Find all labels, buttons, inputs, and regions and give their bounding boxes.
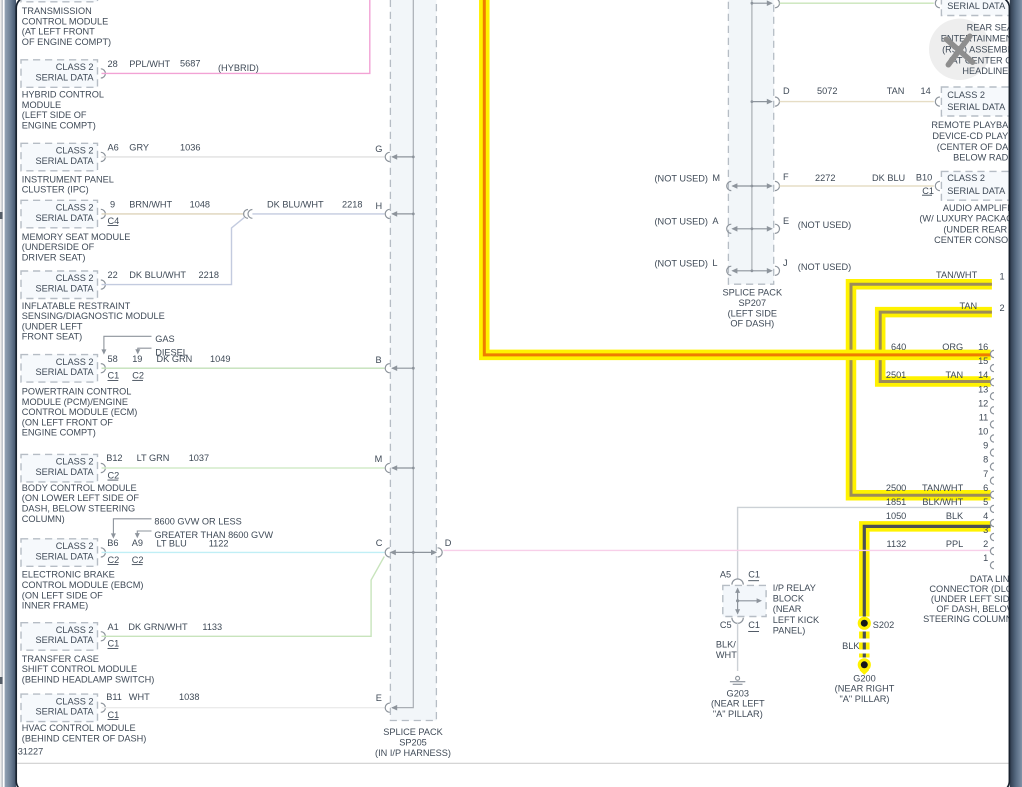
svg-text:DK BLU/WHT: DK BLU/WHT [267, 199, 324, 209]
svg-text:SERIAL DATA: SERIAL DATA [35, 551, 94, 561]
bus arc SP207 top out [775, 0, 780, 8]
callout 8600 GVW OR LESS [113, 519, 151, 534]
svg-text:CLASS 2: CLASS 2 [947, 90, 985, 100]
svg-text:(BEHIND HEADLAMP SWITCH): (BEHIND HEADLAMP SWITCH) [22, 674, 155, 684]
svg-text:(NEAR RIGHT: (NEAR RIGHT [835, 684, 895, 694]
svg-text:A9: A9 [132, 538, 143, 548]
svg-text:WHT: WHT [716, 650, 737, 660]
bus arrow M [392, 467, 413, 469]
svg-text:1133: 1133 [202, 622, 222, 632]
svg-text:TAN: TAN [887, 86, 905, 96]
bus arc B [385, 364, 390, 373]
svg-text:A5: A5 [720, 569, 731, 579]
wire PPL 1132 (SP205 D to DLC pin2) [443, 549, 990, 551]
svg-text:CLASS 2: CLASS 2 [56, 457, 94, 467]
connector box CLASS 2 SERIAL DATA (PCM) [21, 355, 98, 383]
svg-text:10: 10 [978, 427, 988, 437]
svg-text:B10: B10 [916, 172, 932, 182]
connector box CLASS 2 SERIAL DATA (BCM) [21, 454, 98, 482]
IP relay block top arc [732, 579, 743, 585]
svg-text:SERIAL DATA: SERIAL DATA [35, 367, 94, 377]
bus double arrow M-F [733, 185, 772, 187]
svg-text:22: 22 [108, 270, 118, 280]
svg-text:5: 5 [983, 497, 988, 507]
svg-text:"A" PILLAR): "A" PILLAR) [840, 694, 890, 704]
svg-text:9: 9 [110, 199, 115, 209]
svg-text:1132: 1132 [887, 539, 907, 549]
junction dot SP207 D [751, 100, 754, 103]
ground G203 symbol [736, 676, 740, 680]
svg-text:MODULE (PCM)/ENGINE: MODULE (PCM)/ENGINE [22, 397, 128, 407]
svg-text:(ON LOWER LEFT SIDE OF: (ON LOWER LEFT SIDE OF [22, 493, 140, 503]
svg-text:CLASS 2: CLASS 2 [56, 625, 94, 635]
svg-text:C1: C1 [748, 569, 760, 579]
svg-text:(W/ LUXURY PACKAGE): (W/ LUXURY PACKAGE) [919, 214, 1022, 224]
svg-text:I/P RELAY: I/P RELAY [773, 583, 816, 593]
bus arc G [385, 152, 390, 161]
connector box CLASS 2 SERIAL DATA (MSM) [21, 200, 98, 228]
svg-text:FRONT SEAT): FRONT SEAT) [22, 332, 82, 342]
svg-text:OF DASH, BELOW: OF DASH, BELOW [936, 604, 1015, 614]
wire BRN/WHT 1048 segment [102, 213, 245, 215]
bus double arrow A-E [733, 228, 772, 230]
svg-text:M: M [375, 454, 383, 464]
svg-text:28: 28 [108, 59, 118, 69]
splice pack SP205 bus line [392, 0, 413, 708]
svg-text:8600 GVW OR LESS: 8600 GVW OR LESS [154, 517, 241, 527]
bus arrow SP207 D [752, 101, 772, 103]
svg-text:SENSING/DIAGNOSTIC MODULE: SENSING/DIAGNOSTIC MODULE [22, 311, 165, 321]
svg-text:LT GRN: LT GRN [137, 453, 170, 463]
svg-text:2218: 2218 [199, 270, 219, 280]
IP relay block internal junction [736, 599, 739, 602]
svg-text:DK GRN: DK GRN [157, 354, 193, 364]
terminal arc SDM box [101, 280, 106, 289]
svg-text:4: 4 [983, 511, 988, 521]
highlight wire TAN/WHT 2500 (DLC pin1-pin6) [851, 284, 992, 495]
wire DK GRN 1049 [102, 367, 385, 369]
svg-text:2: 2 [1000, 303, 1005, 313]
splice pack SP205 bus body [390, 0, 436, 721]
bus arc L in [727, 266, 732, 275]
svg-text:31227: 31227 [18, 746, 44, 756]
wire PPL/WHT 5687 (hybrid serial data) [102, 0, 370, 73]
svg-text:L: L [712, 258, 717, 268]
svg-text:16: 16 [978, 342, 988, 352]
svg-text:C1: C1 [748, 620, 760, 630]
svg-text:ORG: ORG [942, 342, 963, 352]
DLC pin terminal arcs [990, 350, 994, 357]
junction dot M [412, 467, 415, 470]
wire DK BLU/WHT 2218 branch [102, 218, 245, 285]
svg-text:(LEFT SIDE: (LEFT SIDE [728, 308, 777, 318]
bus arc F out [775, 181, 780, 190]
connector box CLASS 2 SERIAL DATA (EBCM) [21, 539, 98, 567]
svg-text:B12: B12 [106, 453, 122, 463]
svg-text:13: 13 [978, 384, 988, 394]
svg-text:SP207: SP207 [739, 298, 767, 308]
svg-text:1049: 1049 [210, 354, 230, 364]
svg-text:ENGINE COMPT): ENGINE COMPT) [22, 428, 96, 438]
highlight wire ORG 640 (class 2 data bus to DLC pin16) [484, 0, 990, 355]
arc into CD player box [935, 97, 940, 106]
svg-text:COLUMN): COLUMN) [22, 514, 65, 524]
callout GREATER THAN 8600 GVW [137, 531, 151, 536]
svg-text:D: D [445, 538, 452, 548]
svg-text:LEFT KICK: LEFT KICK [773, 615, 820, 625]
svg-text:(NOT USED): (NOT USED) [655, 258, 708, 268]
svg-text:MEMORY SEAT MODULE: MEMORY SEAT MODULE [22, 232, 131, 242]
left scroll mark lower [0, 677, 3, 684]
svg-text:1: 1 [1000, 272, 1005, 282]
svg-text:BLK: BLK [946, 511, 964, 521]
svg-text:(NOT USED): (NOT USED) [655, 216, 708, 226]
bus arrow B [392, 367, 413, 369]
wire LT BLU 1122 [102, 551, 385, 553]
svg-text:TAN/WHT: TAN/WHT [936, 270, 978, 280]
bus arrow E [391, 705, 397, 711]
wire to RSE (green) [780, 2, 934, 4]
svg-text:J: J [783, 258, 788, 268]
svg-text:(IN I/P HARNESS): (IN I/P HARNESS) [375, 748, 451, 758]
svg-text:BRN/WHT: BRN/WHT [129, 199, 172, 209]
svg-text:2501: 2501 [886, 370, 906, 380]
bus arc H [385, 209, 390, 218]
svg-text:CLASS 2: CLASS 2 [56, 541, 94, 551]
terminal arc IPC box [101, 152, 106, 161]
junction dot H [412, 213, 415, 216]
bus arrow G [392, 156, 413, 158]
left slate edge bar [5, 0, 16, 787]
diagram bottom separator [17, 762, 1009, 764]
svg-text:OF ENGINE COMPT): OF ENGINE COMPT) [22, 37, 111, 47]
svg-text:TAN: TAN [945, 370, 963, 380]
svg-text:C2: C2 [108, 555, 120, 565]
terminal arc MSM box [101, 209, 106, 218]
svg-text:SHIFT CONTROL MODULE: SHIFT CONTROL MODULE [22, 664, 137, 674]
svg-text:2218: 2218 [342, 199, 362, 209]
svg-text:HYBRID CONTROL: HYBRID CONTROL [22, 90, 104, 100]
IP relay block bottom arc [732, 618, 743, 624]
svg-text:1851: 1851 [886, 497, 906, 507]
svg-text:1037: 1037 [189, 453, 209, 463]
svg-text:58: 58 [108, 354, 118, 364]
svg-text:PANEL): PANEL) [773, 626, 806, 636]
svg-text:LT BLU: LT BLU [157, 539, 187, 549]
bus arc E [385, 703, 390, 712]
terminal arc HVAC box [101, 703, 106, 712]
svg-text:1036: 1036 [180, 142, 200, 152]
svg-text:12: 12 [978, 398, 988, 408]
splice pack SP207 bus body [728, 0, 773, 284]
svg-text:G203: G203 [727, 688, 749, 698]
svg-text:(NEAR LEFT: (NEAR LEFT [711, 699, 765, 709]
svg-text:G: G [375, 144, 382, 154]
terminal arc HCM [101, 69, 106, 78]
connector box CLASS 2 SERIAL DATA (HVAC) [21, 694, 98, 722]
ground G200 arrow [861, 669, 869, 673]
bus arc C [385, 548, 390, 557]
svg-text:(AT CENTER OF: (AT CENTER OF [948, 55, 1018, 65]
svg-text:BLK/: BLK/ [716, 640, 736, 650]
svg-text:PPL: PPL [946, 539, 963, 549]
svg-text:CONTROL MODULE: CONTROL MODULE [22, 16, 108, 26]
connector box CLASS 2 SERIAL DATA (SDM) [21, 271, 98, 299]
svg-text:(UNDER LEFT SIDE: (UNDER LEFT SIDE [931, 594, 1016, 604]
bus arc M in (SP207) [727, 181, 732, 190]
splice pack SP207 bus line [751, 0, 753, 271]
connector box CLASS 2 SERIAL DATA (TCCM) [21, 623, 98, 651]
svg-text:TAN/WHT: TAN/WHT [922, 483, 964, 493]
svg-text:WHT: WHT [129, 692, 150, 702]
svg-text:C2: C2 [132, 371, 144, 381]
bus double arrow L-J [733, 270, 772, 272]
svg-text:C2: C2 [108, 470, 120, 480]
outer page thin divider line [1, 0, 4, 787]
ground G200 splice dot [858, 658, 871, 671]
svg-text:1: 1 [983, 553, 988, 563]
bus arc E out (SP207) [775, 224, 780, 233]
junction dot B [412, 367, 415, 370]
wire GRY 1036 [102, 156, 385, 158]
svg-text:"A" PILLAR): "A" PILLAR) [713, 709, 763, 719]
terminal arc PCM box [101, 364, 106, 373]
svg-text:SPLICE PACK: SPLICE PACK [383, 727, 443, 737]
svg-text:CONTROL MODULE (EBCM): CONTROL MODULE (EBCM) [22, 580, 144, 590]
svg-text:B11: B11 [106, 692, 122, 702]
bus arc A in [727, 224, 732, 233]
connector box CLASS 2 SERIAL DATA (CD player) [941, 87, 1017, 116]
highlight wire BLK 1050 (DLC pin4 to S202) [864, 526, 990, 616]
svg-text:OF DASH): OF DASH) [730, 319, 774, 329]
svg-text:1048: 1048 [190, 199, 210, 209]
wire BLK S202 to G200 (dashed) [859, 632, 870, 658]
svg-text:(ON LEFT SIDE OF: (ON LEFT SIDE OF [22, 590, 103, 600]
svg-text:INSTRUMENT PANEL: INSTRUMENT PANEL [22, 174, 114, 184]
svg-text:(ON LEFT FRONT OF: (ON LEFT FRONT OF [22, 417, 113, 427]
callout DIESEL [138, 348, 152, 353]
bus arrow SP207 top [752, 2, 772, 4]
svg-text:REMOTE PLAYBACK: REMOTE PLAYBACK [931, 120, 1022, 130]
svg-text:MODULE: MODULE [22, 100, 61, 110]
svg-text:SP205: SP205 [399, 738, 427, 748]
wire BLK/WHT to G203 [737, 623, 739, 671]
svg-text:C: C [376, 538, 383, 548]
svg-text:(NOT USED): (NOT USED) [655, 174, 708, 184]
svg-text:E: E [376, 693, 382, 703]
splice S202 [858, 617, 871, 630]
svg-text:SERIAL DATA: SERIAL DATA [35, 156, 94, 166]
svg-text:SERIAL DATA: SERIAL DATA [35, 467, 94, 477]
svg-text:1038: 1038 [179, 692, 199, 702]
svg-text:15: 15 [978, 356, 988, 366]
svg-text:CLASS 2: CLASS 2 [56, 146, 94, 156]
svg-text:2: 2 [983, 539, 988, 549]
svg-text:(NEAR: (NEAR [773, 604, 802, 614]
connector box CLASS 2 SERIAL DATA (HCM) [21, 60, 98, 88]
svg-text:CLASS 2: CLASS 2 [56, 357, 94, 367]
svg-text:GRY: GRY [129, 142, 149, 152]
svg-text:SERIAL DATA: SERIAL DATA [947, 102, 1006, 112]
terminal arc EBCM box [101, 548, 106, 557]
splice arcs row H [244, 210, 248, 219]
IP relay block box [723, 585, 766, 616]
svg-text:SERIAL DATA: SERIAL DATA [35, 72, 94, 82]
svg-text:S202: S202 [873, 620, 894, 630]
svg-text:INNER FRAME): INNER FRAME) [22, 601, 88, 611]
svg-text:TRANSMISSION: TRANSMISSION [22, 6, 92, 16]
svg-text:1122: 1122 [209, 539, 229, 549]
svg-text:TRANSFER CASE: TRANSFER CASE [22, 654, 99, 664]
junction dot M/F [751, 185, 754, 188]
svg-text:2500: 2500 [886, 483, 906, 493]
svg-text:SERIAL DATA: SERIAL DATA [35, 213, 94, 223]
svg-text:C1: C1 [108, 639, 120, 649]
svg-text:BLK/WHT: BLK/WHT [922, 497, 963, 507]
IP relay block internal vertical [737, 589, 739, 614]
wire BLK/WHT 1851 (DLC pin5 to relay block) [738, 507, 991, 579]
bus double arrow C-D [391, 551, 436, 553]
svg-text:H: H [376, 201, 383, 211]
svg-text:14: 14 [921, 86, 931, 96]
svg-text:ELECTRONIC BRAKE: ELECTRONIC BRAKE [22, 570, 115, 580]
bus arc M [385, 463, 390, 472]
svg-text:D: D [783, 86, 790, 96]
svg-text:C5: C5 [720, 620, 732, 630]
callout GAS [104, 336, 152, 352]
svg-text:INFLATABLE RESTRAINT: INFLATABLE RESTRAINT [22, 301, 131, 311]
svg-text:DK GRN/WHT: DK GRN/WHT [128, 622, 188, 632]
svg-text:STEERING COLUMN): STEERING COLUMN) [923, 614, 1015, 624]
arc into amplifier box [935, 181, 940, 190]
svg-text:CLASS 2: CLASS 2 [56, 273, 94, 283]
svg-text:(UNDERSIDE OF: (UNDERSIDE OF [22, 242, 95, 252]
svg-text:SPLICE PACK: SPLICE PACK [723, 288, 783, 298]
svg-text:E: E [783, 216, 789, 226]
svg-text:(NOT USED): (NOT USED) [798, 220, 851, 230]
right slate edge bar [1010, 0, 1022, 787]
junction dot G [412, 156, 415, 159]
svg-text:5072: 5072 [817, 86, 837, 96]
svg-text:BLK: BLK [842, 641, 860, 651]
close button circle [929, 19, 990, 80]
svg-text:SERIAL DATA: SERIAL DATA [35, 635, 94, 645]
svg-text:CLASS 2: CLASS 2 [56, 62, 94, 72]
svg-text:SERIAL DATA: SERIAL DATA [947, 1, 1006, 11]
svg-text:CONTROL MODULE (ECM): CONTROL MODULE (ECM) [22, 407, 138, 417]
wire DK BLU 2272 [780, 185, 934, 187]
IP relay block internal arrow right [738, 600, 759, 602]
terminal arc BCM box [101, 463, 106, 472]
svg-text:F: F [783, 172, 789, 182]
svg-text:19: 19 [132, 354, 142, 364]
svg-text:(LEFT SIDE OF: (LEFT SIDE OF [22, 110, 87, 120]
wire LT GRN 1037 [102, 467, 385, 469]
wire WHT 1038 [102, 707, 385, 709]
svg-text:ENGINE COMPT): ENGINE COMPT) [22, 120, 96, 130]
svg-text:3: 3 [983, 525, 988, 535]
svg-text:PPL/WHT: PPL/WHT [129, 59, 170, 69]
svg-text:C1: C1 [108, 710, 120, 720]
svg-text:CLUSTER (IPC): CLUSTER (IPC) [22, 185, 89, 195]
svg-text:C4: C4 [108, 216, 120, 226]
svg-text:C1: C1 [108, 371, 120, 381]
svg-text:DEVICE-CD PLAYER: DEVICE-CD PLAYER [932, 131, 1021, 141]
connector box CLASS 2 SERIAL DATA (TCM, cut off at top) [21, 0, 98, 2]
svg-text:TAN: TAN [959, 301, 977, 311]
connector box CLASS 2 SERIAL DATA (IPC) [21, 143, 98, 171]
svg-text:2272: 2272 [815, 173, 835, 183]
connector box CLASS 2 SERIAL DATA (amplifier) [941, 171, 1017, 200]
svg-text:(AT LEFT FRONT: (AT LEFT FRONT [22, 27, 95, 37]
close button X [946, 36, 972, 65]
left scroll mark upper [0, 212, 3, 219]
svg-text:CLASS 2: CLASS 2 [56, 203, 94, 213]
svg-text:B: B [376, 355, 382, 365]
svg-text:A: A [712, 216, 719, 226]
svg-text:C1: C1 [922, 186, 934, 196]
bus arc SP207 D out [775, 97, 780, 106]
svg-text:(NOT USED): (NOT USED) [798, 262, 851, 272]
svg-text:C2: C2 [132, 555, 144, 565]
svg-text:DK BLU/WHT: DK BLU/WHT [129, 270, 186, 280]
junction dot L/J [751, 269, 754, 272]
svg-text:(UNDER LEFT: (UNDER LEFT [22, 321, 83, 331]
svg-text:7: 7 [983, 469, 988, 479]
svg-text:BODY CONTROL MODULE: BODY CONTROL MODULE [22, 483, 137, 493]
terminal arc TCCM box [101, 632, 106, 641]
svg-text:HVAC CONTROL MODULE: HVAC CONTROL MODULE [22, 723, 136, 733]
svg-text:POWERTRAIN CONTROL: POWERTRAIN CONTROL [22, 386, 132, 396]
svg-text:GAS: GAS [155, 334, 174, 344]
svg-text:11: 11 [979, 412, 989, 422]
svg-text:A1: A1 [108, 622, 119, 632]
junction dot SP207 top [751, 2, 754, 5]
svg-text:6: 6 [983, 483, 988, 493]
wire DK GRN/WHT 1133 [102, 557, 385, 637]
svg-text:1050: 1050 [886, 511, 906, 521]
junction dot C/D [412, 551, 415, 554]
svg-text:G200: G200 [853, 673, 875, 683]
svg-text:DK BLU: DK BLU [872, 173, 905, 183]
wire TAN 5072 [780, 101, 934, 103]
svg-text:DASH, BELOW STEERING: DASH, BELOW STEERING [22, 503, 135, 513]
junction dot A/E [751, 227, 754, 230]
svg-text:14: 14 [978, 370, 988, 380]
svg-text:CLASS 2: CLASS 2 [947, 173, 985, 183]
svg-text:(CENTER OF DASH: (CENTER OF DASH [937, 142, 1021, 152]
wire DK BLU/WHT 2218 segment to bus [252, 213, 384, 215]
svg-text:640: 640 [891, 342, 906, 352]
svg-text:CLASS 2: CLASS 2 [56, 696, 94, 706]
bus arrow H [392, 213, 413, 215]
arc into RSE box [935, 0, 940, 8]
svg-text:(BEHIND CENTER OF DASH): (BEHIND CENTER OF DASH) [22, 734, 147, 744]
connector box CLASS 2 SERIAL DATA (RSE, cut) [941, 0, 1017, 16]
svg-text:M: M [712, 173, 720, 183]
bus arc J out [775, 266, 780, 275]
bus arc D out [438, 548, 443, 557]
svg-text:A6: A6 [108, 142, 119, 152]
svg-text:BLOCK: BLOCK [773, 594, 805, 604]
highlight wire TAN 2501 (DLC pin2-pin14) [880, 312, 992, 381]
svg-text:SERIAL DATA: SERIAL DATA [947, 186, 1006, 196]
svg-text:8: 8 [983, 455, 988, 465]
svg-text:SERIAL DATA: SERIAL DATA [35, 284, 94, 294]
svg-text:B6: B6 [107, 538, 118, 548]
svg-text:CONNECTOR (DLC): CONNECTOR (DLC) [929, 584, 1015, 594]
svg-text:DRIVER SEAT): DRIVER SEAT) [22, 253, 86, 263]
